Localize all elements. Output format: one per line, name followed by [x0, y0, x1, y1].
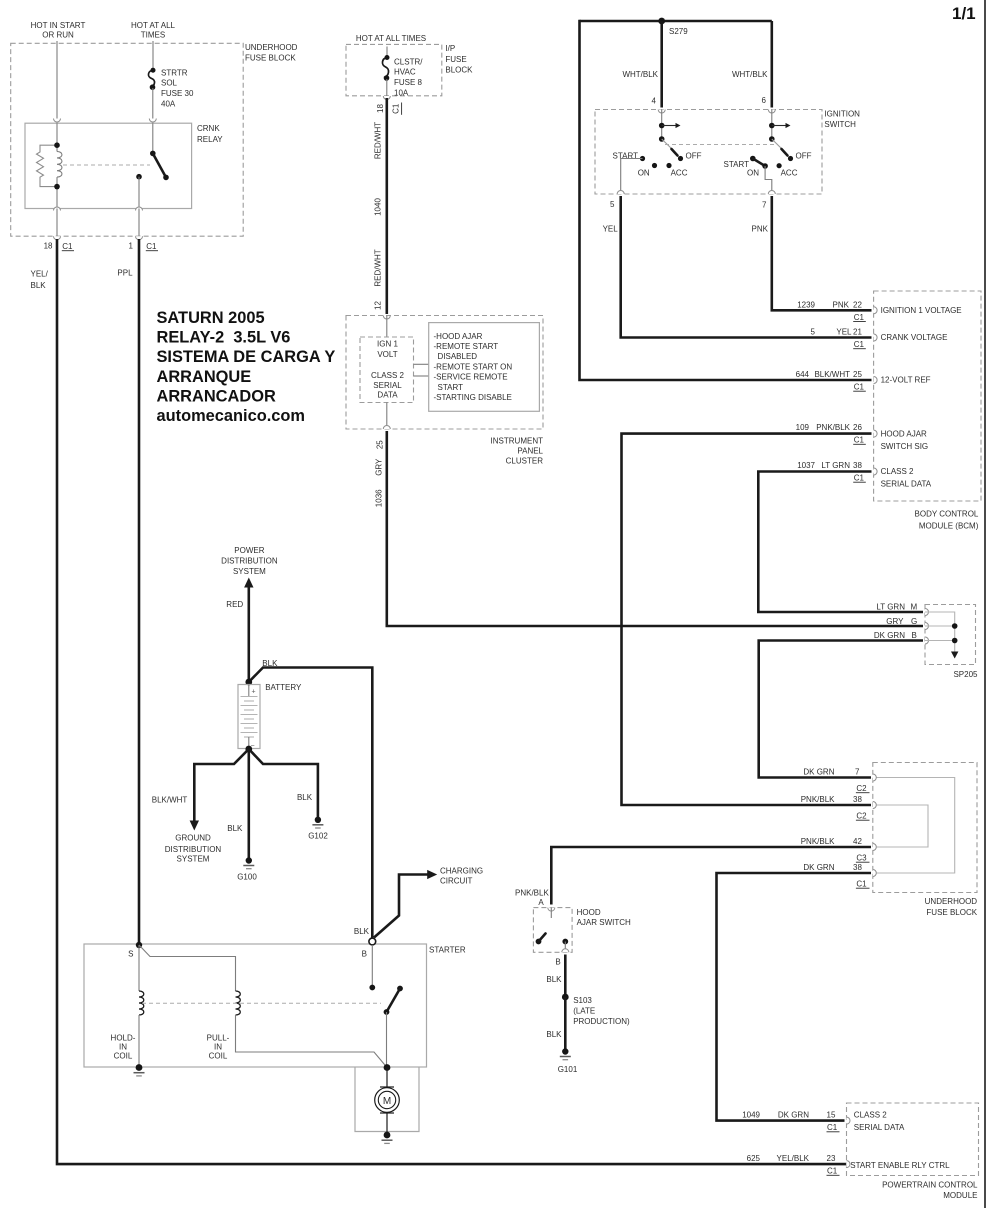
svg-text:automecanico.com: automecanico.com [157, 407, 305, 425]
svg-text:BODY CONTROL: BODY CONTROL [915, 509, 979, 518]
svg-text:IGNITION: IGNITION [824, 109, 860, 118]
connector cup I/P C1 [383, 96, 390, 100]
svg-text:S: S [128, 950, 133, 959]
svg-text:POWER: POWER [234, 546, 264, 555]
wire fuse to relay [152, 88, 154, 123]
svg-text:C1: C1 [827, 1167, 838, 1176]
svg-text:SWITCH SIG: SWITCH SIG [881, 442, 929, 451]
svg-text:BLK: BLK [31, 281, 47, 290]
wire tap to charging circuit (arrow right) [374, 870, 437, 938]
node POWER DISTRIBUTION SYSTEM [221, 546, 278, 576]
svg-text:GRY: GRY [374, 458, 383, 476]
connector cup ignition pin 7 [768, 191, 775, 195]
svg-text:BLK: BLK [227, 824, 243, 833]
relay pin cups bottom [54, 207, 61, 210]
svg-text:644: 644 [796, 370, 810, 379]
node battery negative junction [245, 746, 252, 753]
stub wires to message box [414, 363, 429, 365]
svg-text:BATTERY: BATTERY [265, 683, 302, 692]
wire WHT/BLK to ignition pin 4 [660, 21, 663, 108]
svg-text:UNDERHOOD: UNDERHOOD [245, 43, 298, 52]
svg-text:UNDERHOOD: UNDERHOOD [925, 897, 978, 906]
svg-text:BLOCK: BLOCK [445, 66, 473, 75]
svg-text:PNK/BLK: PNK/BLK [515, 889, 549, 898]
svg-text:CRANK VOLTAGE: CRANK VOLTAGE [881, 333, 948, 342]
svg-text:DK GRN: DK GRN [874, 631, 905, 640]
svg-text:IGNITION 1 VOLTAGE: IGNITION 1 VOLTAGE [881, 306, 962, 315]
wire PNK pin7 to BCM ignition 1 voltage [772, 196, 872, 310]
node motor junction [384, 1064, 391, 1071]
svg-text:DATA: DATA [377, 391, 398, 400]
contact ON (sw1) [652, 163, 657, 168]
svg-text:VOLT: VOLT [377, 350, 397, 359]
ground G100 [237, 857, 257, 881]
svg-text:1040: 1040 [373, 198, 382, 216]
svg-text:B: B [362, 950, 367, 959]
UHFB2 internal bus 38-42 [873, 805, 928, 847]
page right border strip [984, 0, 986, 1208]
connector cup cluster top [383, 316, 390, 320]
svg-text:M: M [383, 1096, 391, 1107]
svg-text:1036: 1036 [374, 489, 383, 507]
svg-text:-REMOTE START: -REMOTE START [434, 342, 499, 351]
label S103 (LATE PRODUCTION) [573, 996, 630, 1026]
wire LT GRN BCM pin38 to SP205 M [758, 472, 923, 613]
svg-text:38: 38 [853, 461, 862, 470]
label POWERTRAIN CONTROL MODULE [882, 1180, 978, 1200]
svg-text:DK GRN: DK GRN [778, 1111, 809, 1120]
wire DK GRN UHFB2 pin38C1 to PCM pin15 [717, 873, 872, 1121]
connector cup cluster bottom [383, 426, 390, 429]
label HOOD AJAR SWITCH [577, 908, 631, 927]
svg-text:BLK/WHT: BLK/WHT [814, 370, 850, 379]
underhood fuse block UHFB1 dashed box [11, 43, 244, 236]
svg-text:C2: C2 [856, 784, 867, 793]
svg-text:BLK: BLK [354, 927, 370, 936]
connector cup PCM pin 23 [847, 1161, 851, 1168]
svg-text:CHARGING: CHARGING [440, 866, 483, 875]
svg-text:1037: 1037 [797, 461, 815, 470]
I/P fuse block dashed box [346, 44, 442, 95]
wire PNK/BLK BCM pin26 to UHFB [622, 434, 872, 805]
svg-text:CIRCUIT: CIRCUIT [440, 876, 473, 885]
svg-text:C1: C1 [854, 313, 865, 322]
wire START contact to pin 5 [621, 159, 643, 195]
wire DK GRN SP205 B to UHFB pin7 [759, 641, 923, 778]
label PULL-IN COIL [207, 1034, 230, 1061]
svg-text:START: START [438, 383, 464, 392]
label INSTRUMENT PANEL CLUSTER [491, 437, 544, 466]
svg-text:SERIAL DATA: SERIAL DATA [854, 1123, 905, 1132]
svg-text:CLASS 2: CLASS 2 [881, 467, 914, 476]
svg-text:C2: C2 [856, 812, 867, 821]
svg-text:LT GRN: LT GRN [876, 603, 905, 612]
label DK GRN / pin B [874, 631, 917, 640]
svg-text:HVAC: HVAC [394, 68, 416, 77]
svg-text:DISTRIBUTION: DISTRIBUTION [165, 845, 222, 854]
label CHARGING CIRCUIT [440, 866, 483, 885]
svg-text:5: 5 [610, 200, 615, 209]
svg-text:GRY: GRY [886, 617, 904, 626]
svg-text:23: 23 [827, 1154, 836, 1163]
starter pull-in coil [139, 945, 387, 1068]
svg-text:RED/WHT: RED/WHT [373, 122, 382, 159]
svg-text:6: 6 [762, 96, 767, 105]
connector C1 label (pin 18) [62, 242, 74, 251]
relay CRNK box [25, 123, 192, 208]
label YEL/BLK [31, 270, 49, 290]
svg-text:FUSE 30: FUSE 30 [161, 89, 194, 98]
svg-text:SP205: SP205 [953, 670, 978, 679]
wire fuse to connector [386, 79, 388, 96]
svg-text:DISTRIBUTION: DISTRIBUTION [221, 556, 278, 565]
terminal B ring [369, 938, 376, 945]
svg-text:PNK/BLK: PNK/BLK [801, 795, 835, 804]
wire BLK battery to starter B [249, 668, 372, 939]
wire RED battery to power dist (arrow up) [244, 578, 253, 683]
connector cup BCM pin 25 [874, 377, 878, 384]
svg-text:12-VOLT REF: 12-VOLT REF [881, 376, 931, 385]
starter hold-in coil [139, 945, 144, 1068]
ignition sw1 wiper arrow [662, 123, 681, 128]
contact ACC (sw2) [777, 163, 782, 168]
svg-text:-STARTING DISABLE: -STARTING DISABLE [434, 393, 512, 402]
svg-text:OFF: OFF [686, 152, 702, 161]
label CRNK RELAY [197, 124, 223, 144]
svg-text:YEL: YEL [603, 225, 619, 234]
BCM row labels 1239 PNK 22 C1 [797, 300, 961, 322]
hood ajar switch dashed box [533, 908, 572, 953]
svg-text:FUSE 8: FUSE 8 [394, 78, 423, 87]
connector cup UHFB2 pin 7 [873, 774, 877, 781]
svg-text:ON: ON [638, 168, 650, 177]
wire BLK/WHT to ground dist (arrow down) [190, 749, 249, 831]
relay mechanical linkage (dashed) [63, 164, 150, 166]
connector cup hood pin B [562, 949, 569, 952]
svg-text:C3: C3 [856, 854, 867, 863]
connector cup hood pin A [548, 908, 555, 912]
svg-text:10A: 10A [394, 89, 409, 98]
wire hot-at-all-times feed [152, 41, 154, 70]
label I/P FUSE BLOCK [445, 44, 473, 75]
motor housing extension [355, 1067, 419, 1132]
svg-text:ACC: ACC [781, 168, 798, 177]
svg-text:YEL/BLK: YEL/BLK [777, 1154, 810, 1163]
svg-text:-HOOD AJAR: -HOOD AJAR [434, 332, 483, 341]
svg-text:+: + [252, 689, 256, 696]
PCM dashed box [847, 1103, 979, 1176]
svg-text:7: 7 [855, 768, 860, 777]
relay coil [57, 123, 62, 208]
svg-text:38: 38 [853, 863, 862, 872]
label BODY CONTROL MODULE (BCM) [915, 509, 979, 530]
wire BLK battery to G100 [248, 749, 251, 861]
BCM row labels 644 BLK/WHT 25 C1 [796, 370, 931, 392]
svg-text:CLASS 2: CLASS 2 [854, 1111, 887, 1120]
wire inside cluster top [386, 316, 388, 338]
cluster message text [434, 332, 513, 402]
svg-text:MODULE (BCM): MODULE (BCM) [919, 522, 979, 531]
labels 1049 DK GRN 15 C1 [742, 1111, 905, 1133]
svg-text:CLSTR/: CLSTR/ [394, 58, 423, 67]
svg-text:PPL: PPL [117, 269, 133, 278]
SP205 internal bus [925, 612, 958, 659]
ground at motor [382, 1132, 393, 1144]
svg-text:15: 15 [827, 1111, 836, 1120]
ignition sw2 common [771, 110, 773, 140]
wire hot-in-start feed [56, 41, 58, 123]
svg-text:PULL-: PULL- [207, 1034, 230, 1043]
svg-text:ON: ON [747, 168, 759, 177]
svg-text:DK GRN: DK GRN [803, 768, 834, 777]
connector C1 cups at fuse block edge [54, 236, 61, 240]
svg-text:PNK: PNK [833, 300, 850, 309]
svg-text:ACC: ACC [671, 168, 688, 177]
wire ON contact to pin 7 [765, 166, 772, 194]
svg-text:POWERTRAIN CONTROL: POWERTRAIN CONTROL [882, 1180, 978, 1189]
svg-text:ARRANQUE: ARRANQUE [157, 368, 252, 386]
svg-text:38: 38 [853, 795, 862, 804]
wire YEL/BLK pin18 down left side [57, 239, 847, 1164]
svg-text:START ENABLE RLY CTRL: START ENABLE RLY CTRL [850, 1161, 950, 1170]
text CLASS 2 SERIAL DATA [371, 371, 404, 400]
svg-text:S103: S103 [573, 996, 592, 1005]
svg-text:G100: G100 [237, 873, 257, 882]
connector C1 label (rotated, underlined) [392, 103, 402, 115]
svg-text:5: 5 [811, 328, 816, 337]
connector cup ignition pin 6 [768, 110, 775, 114]
connector cup BCM pin 21 [874, 334, 878, 341]
battery [238, 685, 260, 751]
relay switch blade [153, 153, 166, 177]
wire BLK hood to S103 [564, 955, 567, 998]
svg-text:YEL/: YEL/ [31, 270, 49, 279]
svg-text:RED: RED [226, 600, 243, 609]
svg-text:SISTEMA DE CARGA Y: SISTEMA DE CARGA Y [157, 348, 336, 366]
svg-text:C1: C1 [392, 103, 401, 114]
connector cup BCM pin 26 [874, 430, 878, 437]
ignition sw1 blade (OFF) [662, 139, 683, 161]
svg-text:SOL: SOL [161, 79, 178, 88]
labels DK GRN 7 C2 [803, 768, 869, 793]
ground G102 [308, 817, 328, 841]
svg-text:7: 7 [762, 201, 767, 210]
svg-text:BLK: BLK [297, 793, 313, 802]
BCM row labels 109 PNK/BLK 26 C1 [796, 423, 929, 451]
svg-text:BLK: BLK [262, 659, 278, 668]
wire 12-volt ref branch (644 BLK/WHT) [580, 20, 872, 380]
label UNDERHOOD FUSE BLOCK (top) [245, 43, 298, 63]
label IGNITION SWITCH [824, 109, 860, 129]
wire YEL pin5 to BCM crank voltage [621, 196, 872, 338]
svg-text:PANEL: PANEL [517, 447, 543, 456]
svg-text:25: 25 [375, 440, 384, 449]
svg-text:1049: 1049 [742, 1111, 760, 1120]
svg-text:PNK/BLK: PNK/BLK [816, 423, 850, 432]
svg-text:C1: C1 [854, 340, 865, 349]
svg-text:START: START [724, 160, 750, 169]
svg-text:M: M [911, 603, 918, 612]
svg-text:C1: C1 [854, 474, 865, 483]
svg-text:SWITCH: SWITCH [824, 120, 856, 129]
starter linkage dashed [142, 1002, 381, 1004]
svg-text:G101: G101 [558, 1065, 578, 1074]
svg-text:FUSE: FUSE [445, 55, 466, 64]
svg-text:SERIAL: SERIAL [373, 381, 402, 390]
node HOT IN START OR RUN [31, 21, 86, 40]
svg-text:STARTER: STARTER [429, 946, 466, 955]
svg-text:21: 21 [853, 328, 862, 337]
wire BLK battery to G102 [249, 749, 318, 820]
starter switch [369, 945, 403, 1068]
svg-text:FUSE BLOCK: FUSE BLOCK [926, 908, 977, 917]
svg-text:WHT/BLK: WHT/BLK [622, 70, 658, 79]
connector cup BCM pin 38 [874, 468, 878, 475]
svg-text:18: 18 [376, 104, 385, 113]
svg-text:TIMES: TIMES [141, 31, 165, 40]
svg-text:C1: C1 [62, 242, 73, 251]
svg-text:AJAR SWITCH: AJAR SWITCH [577, 918, 631, 927]
connector cup BCM pin 22 [874, 307, 878, 314]
hood switch internals [536, 908, 569, 953]
svg-text:HOLD-: HOLD- [111, 1034, 136, 1043]
svg-text:DK GRN: DK GRN [803, 863, 834, 872]
node GROUND DISTRIBUTION SYSTEM [165, 834, 222, 864]
ground G101 [558, 1048, 578, 1074]
svg-text:-SERVICE REMOTE: -SERVICE REMOTE [434, 373, 508, 382]
ignition sw2 blade START-ON [753, 159, 765, 167]
svg-text:G102: G102 [308, 832, 328, 841]
svg-text:GROUND: GROUND [175, 834, 211, 843]
svg-text:18: 18 [44, 241, 53, 250]
underhood fuse block UHFB2 dashed box [873, 763, 977, 893]
svg-text:109: 109 [796, 423, 810, 432]
ignition sw2 wiper arrow [772, 123, 791, 128]
svg-text:RELAY: RELAY [197, 135, 223, 144]
relay output contact [136, 174, 142, 180]
svg-text:B: B [912, 631, 917, 640]
ground at starter coils [134, 1064, 145, 1076]
svg-text:HOT AT ALL: HOT AT ALL [131, 21, 176, 30]
connector cup UHFB2 pin 38 C2 [873, 802, 877, 809]
fuse CLSTR/HVAC FUSE 8 10A [382, 47, 423, 98]
label LT GRN / pin M [876, 603, 917, 612]
svg-text:4: 4 [652, 97, 657, 106]
connector cup ignition pin 5 [617, 191, 624, 195]
svg-text:PNK/BLK: PNK/BLK [801, 837, 835, 846]
svg-text:SATURN 2005: SATURN 2005 [157, 309, 265, 327]
svg-text:WHT/BLK: WHT/BLK [732, 70, 768, 79]
label UNDERHOOD FUSE BLOCK (right) [925, 897, 978, 917]
labels PNK/BLK 42 C3 [801, 837, 870, 862]
svg-text:HOT IN START: HOT IN START [31, 21, 86, 30]
labels 625 YEL/BLK 23 C1 [747, 1154, 951, 1176]
label GRY / pin G [886, 617, 917, 626]
wire RED/WHT ip-fuse to cluster [385, 98, 388, 314]
svg-text:A: A [538, 898, 544, 907]
node coil bottom junction [54, 184, 60, 190]
svg-text:STRTR: STRTR [161, 68, 188, 77]
svg-text:S279: S279 [669, 27, 688, 36]
ignition sw1 common [661, 110, 663, 140]
svg-text:LT GRN: LT GRN [821, 461, 850, 470]
svg-text:ARRANCADOR: ARRANCADOR [157, 387, 276, 405]
svg-text:12: 12 [373, 301, 382, 310]
svg-text:MODULE: MODULE [943, 1191, 977, 1200]
starter box [84, 944, 427, 1067]
motor M [375, 1068, 400, 1136]
svg-text:SYSTEM: SYSTEM [177, 855, 210, 864]
wire WHT/BLK to ignition pin 6 [770, 21, 773, 108]
contact START (sw1) [640, 156, 645, 161]
svg-text:C1: C1 [827, 1123, 838, 1132]
connector cups SP205 [925, 609, 929, 616]
svg-text:COIL: COIL [209, 1052, 228, 1061]
wire inside cluster bottom [386, 403, 388, 430]
svg-text:40A: 40A [161, 99, 176, 108]
relay socket connector cups [54, 119, 61, 123]
ignition linkage dashed [665, 144, 776, 146]
svg-text:DISABLED: DISABLED [438, 352, 478, 361]
wire S279 bus [580, 20, 772, 23]
connector cup UHFB2 pin 38 C1 [873, 870, 877, 877]
svg-text:25: 25 [853, 370, 862, 379]
relay switch common [152, 123, 154, 153]
svg-text:IGN 1: IGN 1 [377, 340, 398, 349]
node HOT AT ALL TIMES (underhood) [131, 21, 176, 40]
instrument panel cluster dashed box [346, 316, 543, 430]
wire PNK/BLK hood ajar to UHFB pin42 [551, 847, 871, 905]
svg-text:CLASS 2: CLASS 2 [371, 371, 404, 380]
svg-text:HOOD AJAR: HOOD AJAR [881, 429, 927, 438]
svg-text:YEL: YEL [836, 328, 852, 337]
cluster message box [429, 323, 540, 412]
svg-text:42: 42 [853, 837, 862, 846]
labels DK GRN 38 C1 [803, 863, 869, 888]
svg-text:-REMOTE START ON: -REMOTE START ON [434, 362, 513, 371]
svg-text:B: B [555, 958, 560, 967]
svg-text:G: G [911, 617, 917, 626]
ignition switch dashed box [595, 110, 822, 195]
connector C1 label (pin 1) [146, 242, 158, 251]
wire BLK S103 to G101 [564, 997, 567, 1052]
node coil top junction [54, 142, 60, 148]
splice S103 [562, 994, 569, 1001]
svg-text:BLK/WHT: BLK/WHT [152, 795, 188, 804]
BCM row labels 5 YEL 21 C1 [811, 328, 948, 350]
cluster inner dashed box IGN1/CLASS2 [360, 337, 414, 403]
svg-text:22: 22 [853, 300, 862, 309]
svg-text:SERIAL DATA: SERIAL DATA [881, 480, 932, 489]
svg-text:OR RUN: OR RUN [42, 31, 74, 40]
svg-text:IN: IN [119, 1043, 127, 1052]
svg-text:BLK: BLK [546, 1030, 562, 1039]
node battery positive junction [245, 679, 252, 686]
fuse STRTR SOL FUSE 30 40A [148, 68, 194, 109]
splice S279 [658, 18, 665, 25]
svg-text:BLK: BLK [546, 975, 562, 984]
svg-text:1/1: 1/1 [952, 4, 976, 23]
BCM row labels 1037 LT GRN 38 C1 [797, 461, 932, 489]
svg-text:COIL: COIL [114, 1052, 133, 1061]
relay coil suppression resistor [37, 145, 58, 186]
svg-text:C1: C1 [856, 880, 867, 889]
svg-text:FUSE BLOCK: FUSE BLOCK [245, 54, 296, 63]
svg-text:1239: 1239 [797, 300, 815, 309]
svg-text:CLUSTER: CLUSTER [506, 456, 544, 465]
contact ON (sw2) [762, 163, 768, 169]
svg-text:RED/WHT: RED/WHT [373, 249, 382, 286]
